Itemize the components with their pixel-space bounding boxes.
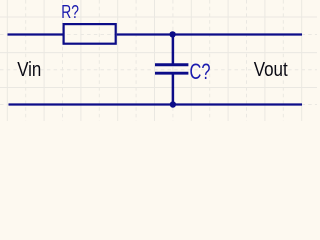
resistor R?: [64, 24, 116, 44]
capacitor C? plates: [155, 63, 188, 66]
svg-text:R?: R?: [61, 1, 79, 22]
sheet background: [0, 0, 317, 121]
junction node bottom: [170, 101, 176, 107]
junction node top: [169, 31, 175, 37]
wire top-right (R1 to Vout): [117, 33, 302, 35]
wire capacitor bottom segment: [172, 74, 175, 106]
svg-text:C?: C?: [190, 59, 211, 84]
wire bottom: [9, 103, 303, 105]
svg-text:Vout: Vout: [254, 59, 288, 81]
svg-text:Vin: Vin: [17, 59, 41, 81]
wire top-left (Vin to R1): [8, 33, 64, 35]
wire capacitor top segment: [172, 34, 175, 65]
